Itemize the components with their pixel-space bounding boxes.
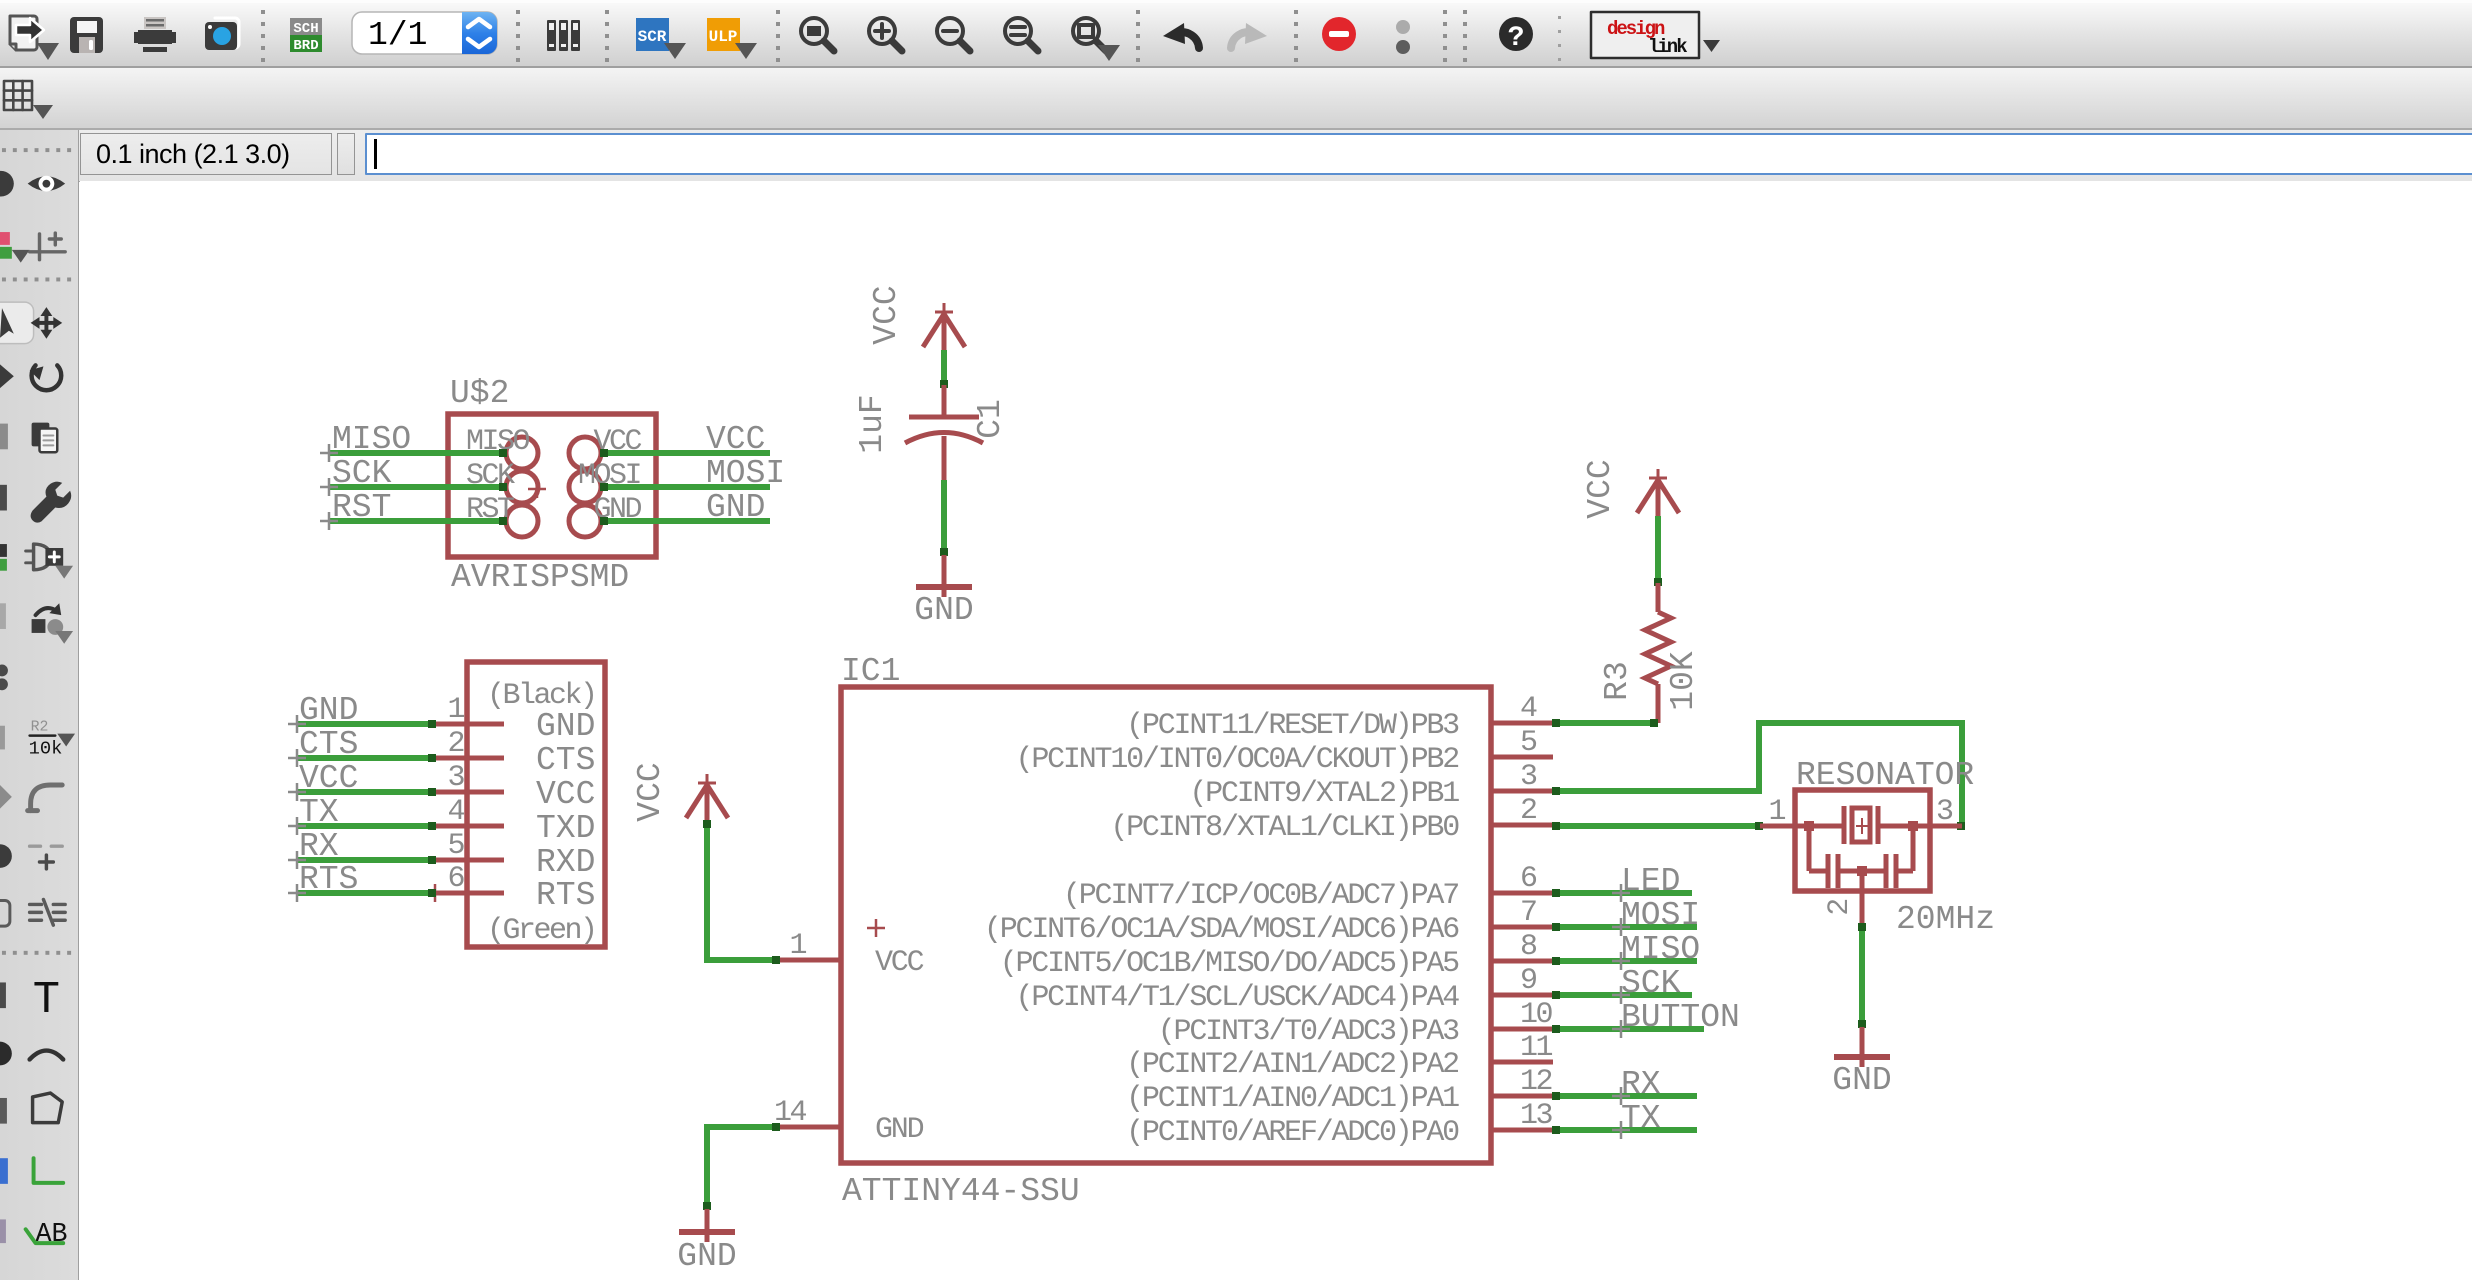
svg-text:CTS: CTS (299, 726, 358, 763)
left sidebar (0, 130, 79, 1280)
label 1uF (854, 394, 891, 453)
svg-text:6: 6 (1520, 862, 1537, 896)
resonator body (1795, 790, 1930, 891)
svg-text:ATTINY44-SSU: ATTINY44-SSU (842, 1173, 1080, 1210)
U$2 pin name MOSI (578, 459, 641, 493)
svg-text:VCC: VCC (706, 421, 765, 458)
U$2 origin cross (528, 480, 546, 498)
svg-text:VCC: VCC (632, 762, 669, 821)
label C1 (972, 399, 1009, 439)
connector U$2 name label (450, 375, 509, 412)
split icon (30, 900, 66, 926)
IC1 pin 1 VCC (773, 929, 924, 980)
svg-text:GND: GND (706, 489, 765, 526)
partial icon col1: rect (0, 1098, 7, 1124)
svg-text:(PCINT3/T0/ADC3)PA3: (PCINT3/T0/ADC3)PA3 (1158, 1015, 1459, 1049)
IC1 pin 8 PA5 (1000, 930, 1553, 981)
svg-text:(PCINT6/OC1A/SDA/MOSI/ADC6)PA6: (PCINT6/OC1A/SDA/MOSI/ADC6)PA6 (984, 913, 1459, 947)
label CTS (299, 726, 358, 763)
IC1 value ATTINY44-SSU (842, 1173, 1080, 1210)
partial icon col1: rect (0, 424, 8, 450)
svg-text:CTS: CTS (536, 742, 595, 779)
svg-text:RST: RST (332, 489, 391, 526)
wire VCC to IC1 pin1 (703, 820, 780, 964)
svg-text:(PCINT5/OC1B/MISO/DO/ADC5)PA5: (PCINT5/OC1B/MISO/DO/ADC5)PA5 (1000, 947, 1459, 981)
label AB icon (26, 1220, 68, 1250)
U$2 pin name GND (593, 493, 641, 527)
grid icon row2 (4, 81, 32, 110)
IC1 pin 9 PA4 (1016, 964, 1553, 1015)
partial icon col1: circle (0, 1042, 12, 1066)
IC1 pin 14 GND (773, 1096, 924, 1147)
dotted separator (2, 148, 71, 152)
partial icon col1: triangle gray (0, 785, 12, 809)
svg-text:2: 2 (1823, 900, 1857, 916)
U$2 pin name SCK (466, 459, 515, 493)
zoom fit (801, 18, 834, 51)
label GND (706, 489, 765, 526)
svg-text:20MHz: 20MHz (1896, 901, 1995, 938)
svg-text:(PCINT7/ICP/OC0B/ADC7)PA7: (PCINT7/ICP/OC0B/ADC7)PA7 (1063, 879, 1458, 913)
wire net SCK left (320, 478, 507, 496)
separator (516, 10, 520, 62)
separator (1294, 10, 1298, 62)
svg-text:GND: GND (1832, 1062, 1891, 1099)
svg-text:TXD: TXD (536, 810, 595, 847)
svg-text:11: 11 (1520, 1031, 1553, 1065)
svg-text:(PCINT1/AIN0/ADC1)PA1: (PCINT1/AIN0/ADC1)PA1 (1126, 1082, 1459, 1116)
label R3 rotated (1599, 661, 1636, 701)
SCH/BRD icon (290, 18, 322, 54)
svg-text:5: 5 (447, 829, 464, 863)
miter icon (30, 844, 63, 848)
dotted separator (2, 277, 71, 281)
svg-text:link: link (1648, 36, 1687, 58)
svg-text:5: 5 (1520, 726, 1537, 760)
resonator name label (1796, 757, 1974, 794)
svg-text:(PCINT11/RESET/DW)PB3: (PCINT11/RESET/DW)PB3 (1126, 709, 1459, 743)
svg-text:1: 1 (447, 693, 464, 727)
label RST (332, 489, 391, 526)
IC1 pin 2 PB0 (1110, 794, 1553, 845)
svg-text:7: 7 (1520, 896, 1536, 930)
power VCC symbol above R3 (1637, 469, 1679, 516)
svg-text:MOSI: MOSI (1621, 897, 1700, 934)
separator (261, 10, 265, 62)
help icon (1499, 17, 1533, 51)
zoom redraw + dropdown (1073, 18, 1106, 51)
IC1 pin 7 PA6 (984, 896, 1553, 947)
resonator internal capacitors (1804, 821, 1918, 893)
partial icon col1: dark tool (0, 485, 7, 511)
U$2 pin circle MOSI (569, 471, 601, 503)
wire resonator pin2 to GND (1858, 923, 1866, 1028)
FTDI pin 6 RTS (435, 862, 595, 914)
separators (1443, 10, 1467, 62)
svg-text:R2: R2 (31, 720, 49, 736)
export icon (10, 16, 44, 50)
IC1 pin 6 PA7 (1063, 862, 1553, 913)
svg-text:12: 12 (1520, 1065, 1552, 1099)
U$2 pin circle RST (506, 505, 538, 537)
svg-text:GND: GND (536, 708, 595, 745)
label MISO (1621, 931, 1700, 968)
power VCC symbol at IC1 pin1 (686, 774, 728, 821)
IC1 pin 3 PB1 (1189, 760, 1553, 811)
label VCC rotated (868, 285, 905, 344)
label VCC (706, 421, 765, 458)
FTDI pin 2 CTS (435, 727, 595, 779)
redo (1231, 32, 1253, 48)
label SCK (332, 455, 392, 492)
U$2 value AVRISPSMD (451, 559, 629, 596)
svg-text:4: 4 (1520, 692, 1537, 726)
svg-text:3: 3 (1520, 760, 1537, 794)
polygon icon (33, 1093, 63, 1123)
svg-text:1uF: 1uF (854, 394, 891, 453)
svg-text:MISO: MISO (1621, 931, 1700, 968)
IC1 pin 4 PB3 (1126, 692, 1553, 743)
label RX (1621, 1066, 1661, 1103)
wire net MOSI right (600, 483, 770, 491)
svg-text:(PCINT2/AIN1/ADC2)PA2: (PCINT2/AIN1/ADC2)PA2 (1126, 1048, 1458, 1082)
svg-text:9: 9 (1520, 964, 1536, 998)
svg-text:RX: RX (299, 828, 339, 865)
dotted separator (2, 951, 71, 955)
partial icon col1: mirror triangle (0, 364, 14, 388)
zoom select (1005, 18, 1038, 51)
FTDI pin 5 RXD (435, 829, 595, 881)
IC1 ATTINY44 body (841, 687, 1491, 1163)
svg-text:C1: C1 (972, 399, 1009, 439)
wire PB3 to R3 (1552, 719, 1658, 727)
svg-text:(PCINT0/AREF/ADC0)PA0: (PCINT0/AREF/ADC0)PA0 (1126, 1116, 1459, 1150)
label 10K rotated (1665, 651, 1702, 711)
svg-text:VCC: VCC (875, 946, 924, 980)
IC1 origin cross (867, 919, 885, 937)
wire net MISO (1552, 952, 1697, 970)
svg-text:RX: RX (1621, 1066, 1661, 1103)
svg-text:GND: GND (875, 1113, 924, 1147)
mark icon (30, 233, 66, 260)
SCR icon (636, 18, 686, 59)
ground symbol below IC1 (679, 1209, 735, 1242)
svg-text:10: 10 (1520, 998, 1553, 1032)
partial icon col1: dark blob (0, 982, 6, 1008)
ground symbol below C1 (916, 555, 972, 597)
svg-text:10K: 10K (1665, 651, 1702, 711)
resonator value 20MHz (1896, 901, 1995, 938)
label VCC rotated (632, 762, 669, 821)
svg-text:(PCINT4/T1/SCL/USCK/ADC4)PA4: (PCINT4/T1/SCL/USCK/ADC4)PA4 (1016, 981, 1460, 1015)
zoom out (937, 18, 970, 51)
svg-text:TX: TX (299, 794, 339, 831)
FTDI label (Green) (487, 914, 596, 948)
wire net BUTTON (1552, 1020, 1704, 1038)
wire net RX (1552, 1087, 1697, 1105)
net line icon (34, 1158, 64, 1183)
U$2 pin circle GND (569, 505, 601, 537)
svg-text:SCH: SCH (293, 21, 318, 37)
svg-text:GND: GND (914, 592, 973, 629)
FTDI label (Black) (487, 679, 596, 713)
svg-text:TX: TX (1621, 1100, 1661, 1137)
svg-text:(PCINT10/INT0/OC0A/CKOUT)PB2: (PCINT10/INT0/OC0A/CKOUT)PB2 (1016, 743, 1459, 777)
wire net RTS (288, 884, 436, 902)
U$2 pin name MISO (466, 425, 530, 459)
IC1 pin 11 PA2 (1126, 1031, 1553, 1082)
arc icon (30, 1051, 64, 1060)
library books icon (547, 20, 580, 51)
two dots (1396, 20, 1410, 34)
label GND (299, 692, 358, 729)
svg-text:T: T (33, 974, 60, 1026)
design link button (1591, 12, 1699, 58)
partial icon col1: info circle (0, 171, 14, 197)
svg-text:VCC: VCC (1582, 459, 1619, 518)
svg-text:SCK: SCK (332, 455, 392, 492)
wire VCC to C1 (940, 350, 948, 388)
svg-text:1: 1 (789, 929, 806, 963)
U$2 pin circle MISO (506, 437, 538, 469)
svg-text:13: 13 (1520, 1099, 1553, 1133)
IC1 pin 13 PA0 (1126, 1099, 1553, 1150)
FTDI pin 3 VCC (435, 761, 595, 813)
ULP icon (707, 18, 757, 59)
selected tool highlight + partial cursor (0, 302, 34, 343)
IC1 pin 10 PA3 (1158, 998, 1553, 1049)
label TX (299, 794, 339, 831)
svg-text:RTS: RTS (536, 877, 595, 914)
IC1 name label (841, 653, 900, 690)
save icon (70, 17, 103, 53)
partial icon col1: purple rect (0, 1219, 6, 1243)
resistor R3 (1645, 583, 1671, 723)
svg-text:(PCINT8/XTAL1/CLKI)PB0: (PCINT8/XTAL1/CLKI)PB0 (1110, 811, 1459, 845)
U$2 pin name VCC (593, 425, 641, 459)
wrench icon (31, 482, 72, 523)
image/camera icon (205, 18, 239, 50)
FTDI pin 1 GND (435, 693, 595, 745)
separator (605, 10, 609, 62)
stop icon (1322, 17, 1356, 51)
svg-text:RTS: RTS (299, 861, 358, 898)
svg-text:VCC: VCC (299, 760, 358, 797)
wire net SCK (1552, 986, 1692, 1004)
rotate icon (30, 365, 62, 390)
sheet spinner 1/1 (352, 12, 497, 54)
U$2 pin circle SCK (506, 471, 538, 503)
wire VCC to R3 (1654, 516, 1662, 586)
wire net GND right (600, 517, 770, 525)
svg-text:GND: GND (299, 692, 358, 729)
IC1 pin 5 PB2 (1016, 726, 1553, 777)
svg-text:4: 4 (447, 795, 464, 829)
IC1 pin 12 PA1 (1126, 1065, 1553, 1116)
label VCC rotated (1582, 459, 1619, 518)
svg-text:(Green): (Green) (487, 914, 596, 948)
wire net MISO left (320, 444, 507, 462)
svg-text:ULP: ULP (709, 28, 738, 46)
svg-text:R3: R3 (1599, 661, 1636, 701)
svg-text:SCK: SCK (1621, 965, 1681, 1002)
label RX (299, 828, 339, 865)
U$2 pin circle VCC (569, 437, 601, 469)
label RTS (299, 861, 358, 898)
separator (776, 10, 780, 62)
wire PB0 to resonator pin1 (1552, 822, 1763, 830)
svg-text:MOSI: MOSI (706, 455, 785, 492)
svg-text:AB: AB (36, 1220, 68, 1250)
separator (1136, 10, 1140, 62)
wire net VCC ftdi (288, 783, 436, 801)
power VCC symbol above C1 (923, 303, 965, 350)
copy icon (32, 423, 58, 453)
wire PB1 to resonator pin3 (1552, 723, 1965, 830)
svg-text:1: 1 (1768, 795, 1785, 829)
resonator crystal element (1795, 806, 1930, 844)
partial icon col1: pages gray (0, 603, 6, 629)
resonator pin 2 (1823, 893, 1862, 925)
eye icon (28, 176, 66, 192)
add gate icon (26, 544, 73, 579)
svg-text:1/1: 1/1 (368, 17, 427, 54)
replace icon (32, 603, 73, 643)
wire net VCC right (600, 449, 770, 457)
label GND (677, 1238, 736, 1275)
partial icon col1: rounded rect (0, 900, 10, 926)
svg-text:10k: 10k (29, 737, 63, 759)
svg-text:U$2: U$2 (450, 375, 509, 412)
svg-text:GND: GND (677, 1238, 736, 1275)
label GND (914, 592, 973, 629)
wire net RST left (320, 512, 507, 530)
resonator origin cross (1856, 818, 1868, 834)
svg-text:BRD: BRD (293, 38, 318, 54)
FTDI pin 4 TXD (435, 795, 595, 847)
connector U$2 AVRISPSMD body (448, 414, 656, 557)
svg-text:LED: LED (1621, 863, 1680, 900)
svg-text:SCR: SCR (638, 28, 667, 46)
label MISO (332, 421, 411, 458)
svg-text:3: 3 (447, 761, 464, 795)
label BUTTON (1621, 999, 1740, 1036)
label VCC (299, 760, 358, 797)
value R2/10k icon (29, 720, 75, 760)
resonator pin 3 (1930, 795, 1962, 829)
top toolbars (0, 0, 2472, 130)
wire IC1 pin14 to GND (703, 1123, 780, 1210)
label SCK (1621, 965, 1681, 1002)
svg-text:3: 3 (1936, 795, 1953, 829)
partial icon col1 (0, 726, 5, 750)
wire net GND ftdi (288, 715, 436, 733)
label TX (1621, 1100, 1661, 1137)
move icon (31, 307, 63, 339)
svg-text:AVRISPSMD: AVRISPSMD (451, 559, 629, 596)
U$2 pin name RST (466, 493, 514, 527)
svg-text:6: 6 (447, 862, 464, 896)
partial icon col1: display layers (0, 232, 30, 263)
resonator pin 1 (1760, 795, 1795, 829)
label MOSI (706, 455, 785, 492)
wire net LED (1552, 884, 1692, 902)
label GND (1832, 1062, 1891, 1099)
sparse dots (1558, 16, 1561, 61)
arc corner icon (31, 785, 63, 811)
print icon (134, 17, 176, 52)
partial icon col1: blue rect (0, 1158, 8, 1184)
svg-text:2: 2 (1520, 794, 1536, 828)
wire net CTS (288, 749, 436, 767)
svg-text:VCC: VCC (868, 285, 905, 344)
zoom in (869, 18, 902, 51)
partial icon col1: gate layers (0, 544, 7, 571)
partial icon col1: dots 8 (0, 665, 8, 677)
svg-text:RXD: RXD (536, 844, 595, 881)
connector FTDI body (467, 662, 605, 947)
wire net RX ftdi (288, 851, 436, 869)
svg-text:VCC: VCC (536, 776, 595, 813)
command row (0, 130, 2472, 182)
partial icon col1: circle dark (0, 844, 12, 868)
ground symbol below resonator (1834, 1027, 1890, 1067)
wire net TX (1552, 1121, 1697, 1139)
svg-text:MISO: MISO (332, 421, 411, 458)
svg-text:?: ? (1508, 23, 1525, 54)
wire net TX ftdi (288, 817, 436, 835)
capacitor C1 (905, 385, 983, 482)
wire C1 to GND (940, 480, 948, 556)
svg-text:8: 8 (1520, 930, 1537, 964)
label MOSI (1621, 897, 1700, 934)
FTDI origin cross (426, 884, 444, 902)
svg-text:(PCINT9/XTAL2)PB1: (PCINT9/XTAL2)PB1 (1189, 777, 1459, 811)
label LED (1621, 863, 1680, 900)
wire net MOSI (1552, 918, 1697, 936)
svg-text:2: 2 (447, 727, 463, 761)
svg-text:BUTTON: BUTTON (1621, 999, 1740, 1036)
undo (1177, 32, 1199, 48)
